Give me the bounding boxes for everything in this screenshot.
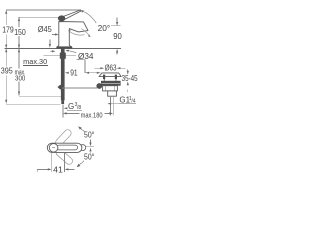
leader arc 20deg — [81, 11, 96, 23]
svg-text:90: 90 — [113, 32, 122, 41]
svg-text:20°: 20° — [98, 24, 111, 33]
top view inner lever face — [57, 145, 78, 150]
waste nut separator — [102, 83, 121, 85]
dia34 leader — [70, 51, 77, 53]
counter bottom line — [43, 54, 76, 56]
svg-text:max.180: max.180 — [81, 113, 103, 120]
svg-text:Ø63: Ø63 — [105, 64, 117, 73]
waste nut — [101, 81, 121, 86]
svg-text:300: 300 — [15, 75, 25, 82]
svg-text:395: 395 — [1, 67, 13, 76]
top view spout tip — [80, 145, 86, 151]
shank — [61, 48, 65, 100]
shank nipple G3/8 — [61, 100, 64, 104]
wire ext line knob level — [19, 16, 59, 18]
stream arc right — [81, 29, 90, 37]
dim max.180 — [62, 105, 64, 118]
waste lower body — [103, 86, 118, 91]
rod coupling diamond — [58, 85, 64, 90]
pull rod — [59, 87, 97, 89]
max.30 down arrow — [49, 40, 51, 45]
waste tailpiece — [108, 91, 117, 96]
dim dia63 — [95, 67, 101, 69]
svg-text:G: G — [68, 102, 74, 111]
dim 91 — [65, 72, 69, 74]
dim max.300 — [18, 48, 20, 95]
mounting nut on shank — [60, 53, 66, 59]
svg-text:35-45: 35-45 — [122, 74, 138, 83]
top view ghost handle lower — [55, 148, 74, 166]
svg-text:179: 179 — [2, 26, 14, 35]
svg-text:91: 91 — [70, 69, 78, 78]
top view ghost handle upper — [54, 128, 72, 147]
svg-text:Ø45: Ø45 — [38, 25, 53, 34]
dim 35-45 — [127, 69, 129, 71]
faucet body outline — [57, 22, 88, 49]
dim 90 — [111, 25, 121, 27]
rod ball joint — [96, 83, 102, 89]
top view outer capsule — [47, 143, 82, 152]
faucet base band — [57, 46, 72, 48]
counter top line — [5, 47, 122, 49]
waste upper body — [104, 77, 116, 81]
pivot dash — [52, 147, 55, 149]
max.30 right arrow — [50, 50, 52, 52]
angle arrows mid — [90, 140, 92, 143]
svg-text:50°: 50° — [84, 152, 94, 161]
drain tube — [110, 96, 112, 115]
top view pivot circle — [49, 144, 58, 153]
ext line from dia34 underline — [84, 60, 86, 73]
svg-text:150: 150 — [14, 28, 26, 37]
lower body hatch — [105, 86, 107, 91]
wire ref line hose level — [19, 95, 62, 97]
wire ext line top (lever tip level) — [6, 9, 80, 11]
lever knob — [58, 15, 65, 21]
waste plug flange — [99, 73, 121, 77]
dim 41 — [51, 153, 53, 172]
dim 179 — [5, 10, 7, 48]
svg-text:41: 41 — [53, 166, 63, 175]
wire ref line shank end level — [6, 104, 60, 106]
plug underside marks — [103, 75, 105, 79]
dim 150 — [18, 17, 20, 48]
dim 395 — [5, 48, 7, 103]
stream arc left — [69, 31, 85, 35]
lever blade — [63, 10, 81, 20]
svg-text:50°: 50° — [84, 131, 94, 140]
